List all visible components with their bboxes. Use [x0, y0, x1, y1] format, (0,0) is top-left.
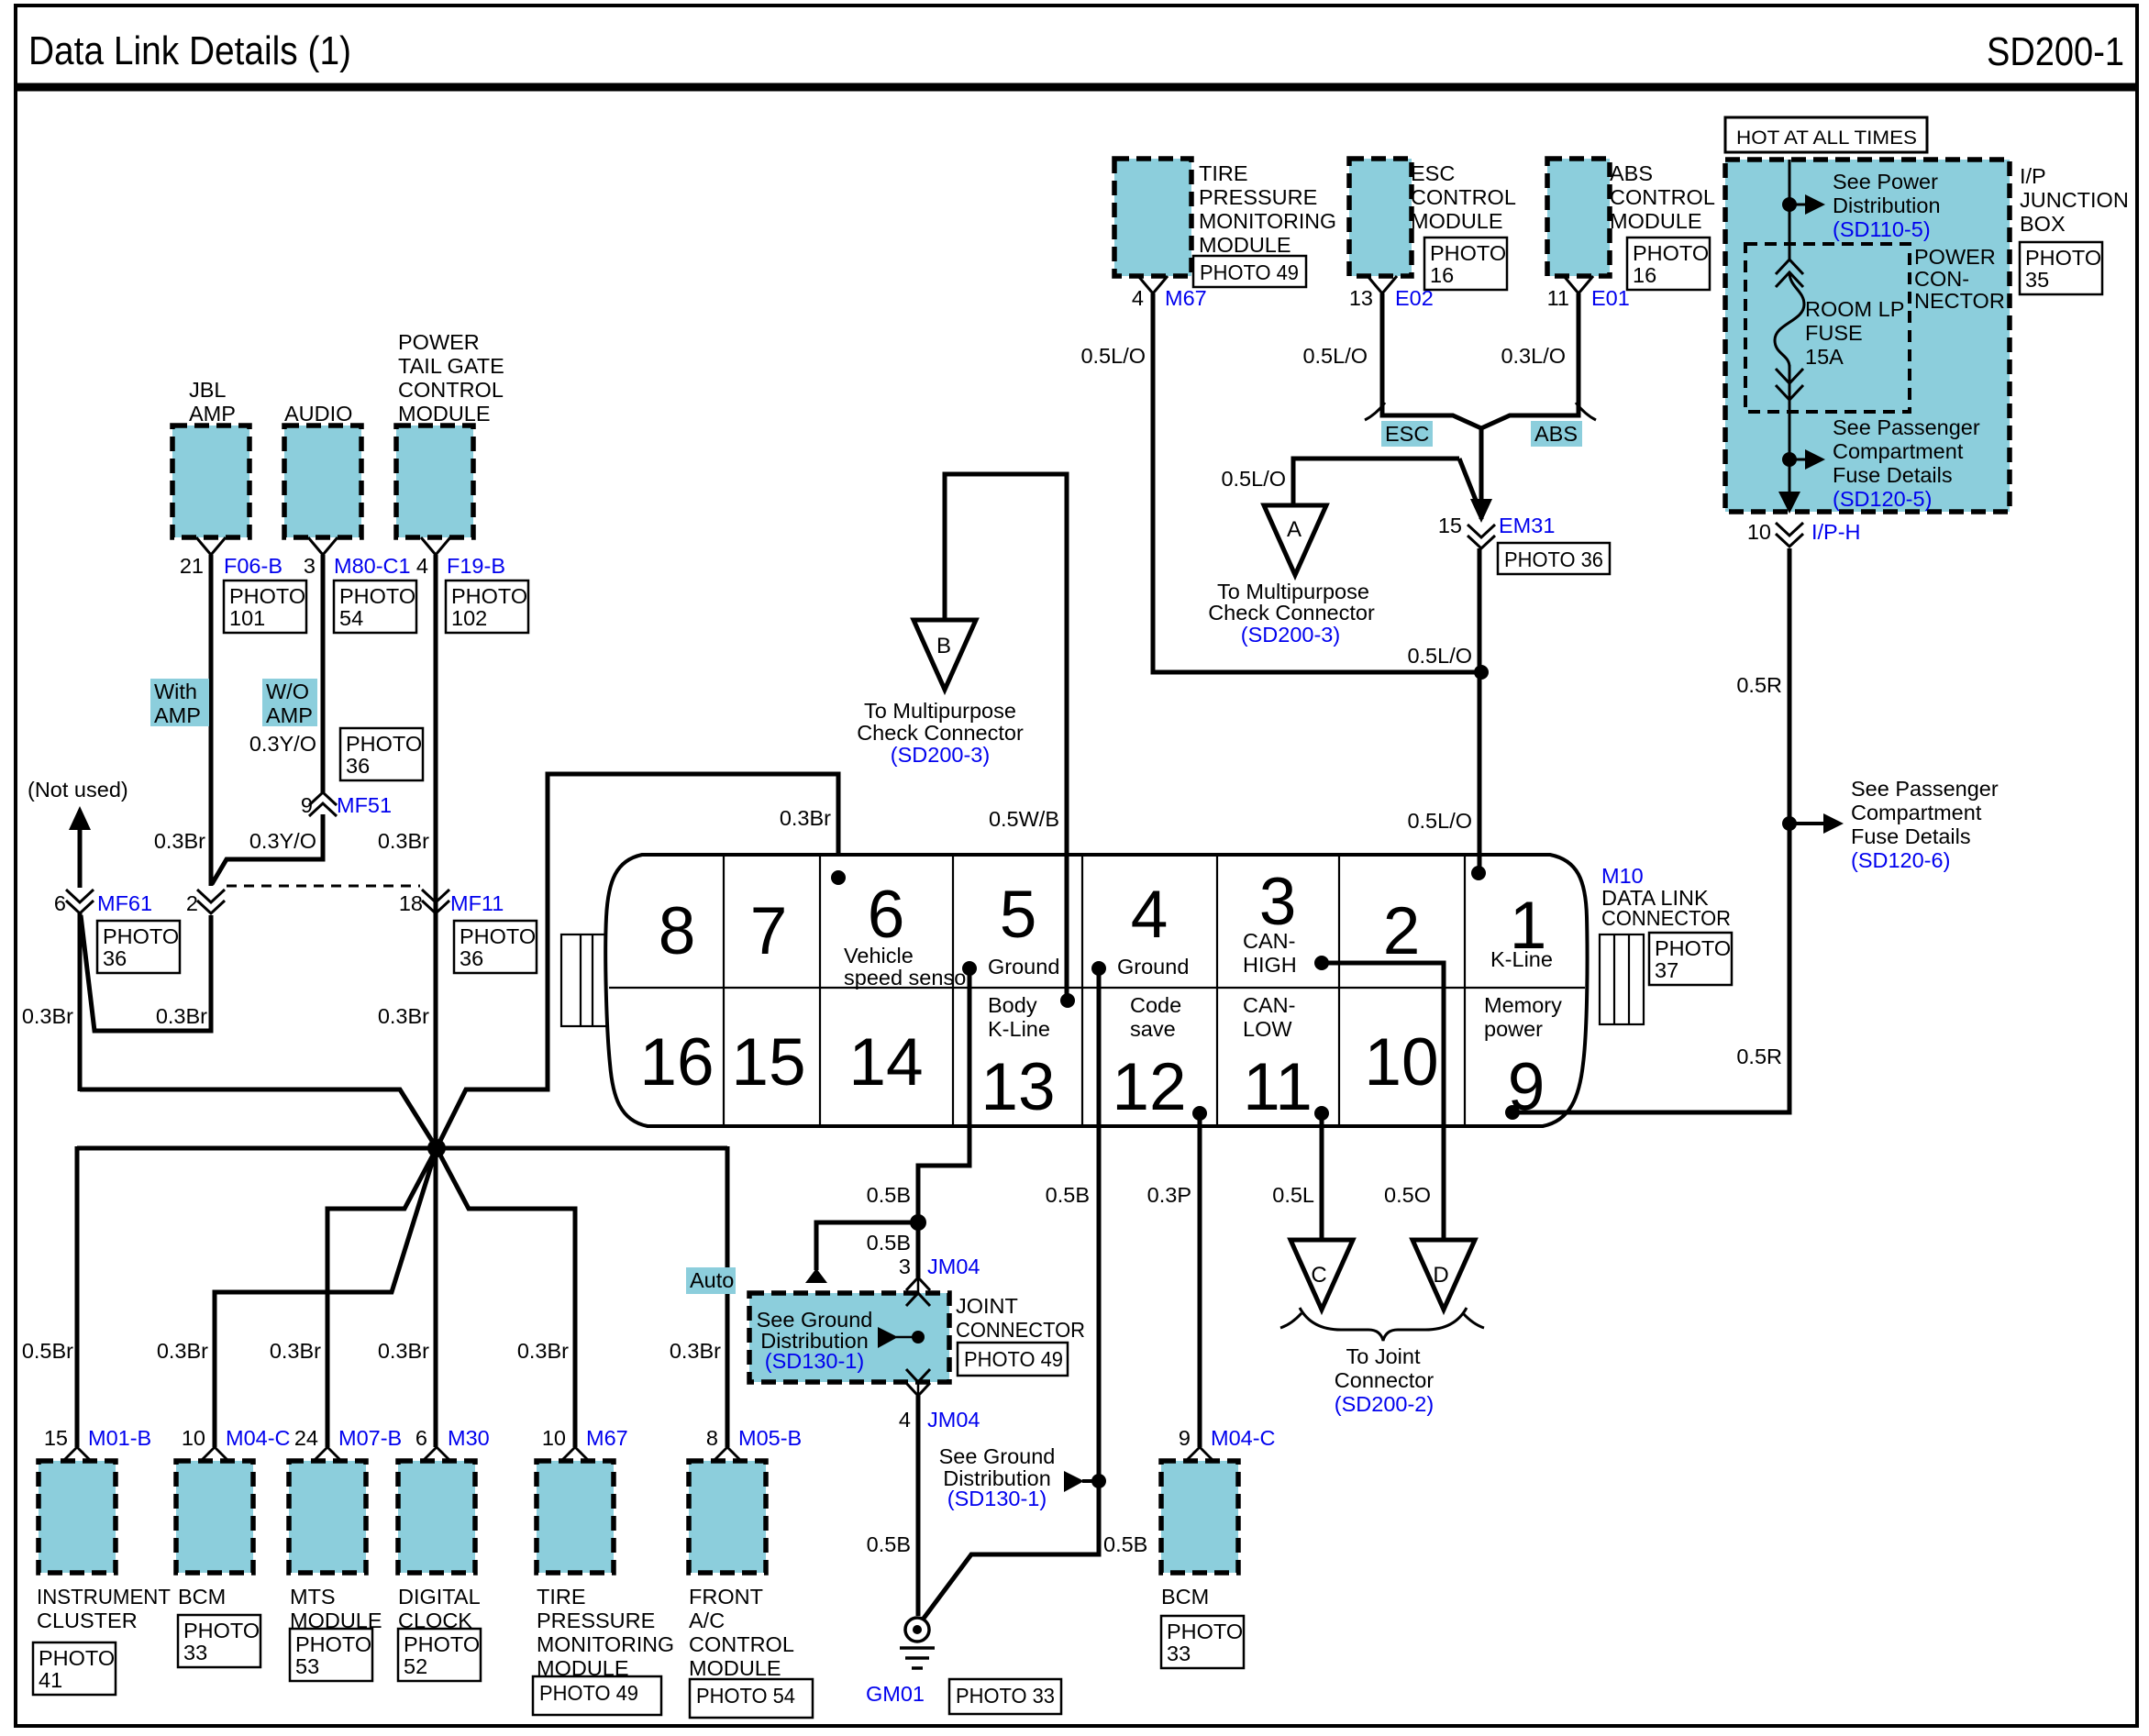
connector pin E01: [1564, 276, 1593, 293]
svg-text:36: 36: [346, 754, 370, 778]
svg-text:37: 37: [1655, 958, 1678, 982]
svg-text:(SD120-6): (SD120-6): [1851, 848, 1950, 872]
highlight Auto: [686, 1267, 736, 1294]
svg-text:JUNCTION: JUNCTION: [2020, 188, 2129, 212]
svg-text:15: 15: [44, 1426, 68, 1450]
arrow ground distribution (JM04): [878, 1327, 898, 1348]
svg-text:PHOTO 54: PHOTO 54: [696, 1684, 795, 1708]
svg-text:EM31: EM31: [1499, 514, 1555, 537]
svg-text:54: 54: [339, 606, 363, 630]
node pin9 memory power: [1505, 1105, 1520, 1120]
svg-text:(Not used): (Not used): [28, 778, 128, 802]
svg-text:33: 33: [1167, 1642, 1191, 1665]
svg-text:0.3L/O: 0.3L/O: [1501, 344, 1566, 368]
PHOTO 36 box (MF61): [97, 921, 180, 973]
PHOTO 33 box (BCM right): [1161, 1616, 1244, 1668]
svg-text:13: 13: [980, 1050, 1055, 1124]
svg-text:See Passenger: See Passenger: [1851, 777, 1999, 801]
svg-text:MODULE: MODULE: [689, 1656, 781, 1680]
connector M67 (TPMS): [562, 1447, 588, 1460]
svg-text:AMP: AMP: [154, 703, 201, 727]
connector MF61: [66, 890, 94, 913]
svg-text:(SD120-5): (SD120-5): [1833, 487, 1932, 511]
svg-text:See Power: See Power: [1833, 170, 1938, 194]
PHOTO 16 box (ESC): [1424, 238, 1507, 290]
JOINT CONNECTOR JM04: [749, 1293, 949, 1382]
svg-text:Check Connector: Check Connector: [857, 721, 1024, 745]
svg-text:0.5B: 0.5B: [867, 1231, 911, 1255]
wire MF61 straight down to corner: [78, 913, 83, 1091]
triangle C: [1291, 1240, 1353, 1310]
svg-text:Body: Body: [988, 993, 1037, 1017]
connector M01-B (instrument cluster): [64, 1447, 90, 1460]
svg-text:JOINT: JOINT: [956, 1294, 1018, 1318]
PHOTO 41 box: [33, 1642, 116, 1695]
svg-text:(SD200-3): (SD200-3): [891, 743, 990, 767]
triangle D: [1412, 1240, 1475, 1310]
svg-text:To Joint: To Joint: [1346, 1344, 1421, 1368]
svg-text:8: 8: [706, 1426, 718, 1450]
module TPMS (top): [1114, 159, 1191, 276]
ground GM01: [900, 1618, 935, 1668]
svg-text:101: 101: [229, 606, 265, 630]
svg-text:See Passenger: See Passenger: [1833, 415, 1980, 439]
svg-text:JM04: JM04: [927, 1408, 980, 1432]
svg-text:MODULE: MODULE: [398, 402, 491, 426]
wire branch to triangle A: [1293, 459, 1459, 505]
svg-text:MONITORING: MONITORING: [537, 1632, 674, 1656]
svg-text:PHOTO 33: PHOTO 33: [956, 1684, 1055, 1708]
svg-text:HOT AT ALL TIMES: HOT AT ALL TIMES: [1736, 127, 1917, 149]
svg-text:Check Connector: Check Connector: [1208, 601, 1375, 625]
PHOTO 54 box (front A/C): [690, 1679, 813, 1718]
svg-text:6: 6: [54, 891, 66, 915]
PHOTO 35 box: [2020, 242, 2102, 294]
svg-text:PHOTO: PHOTO: [460, 924, 536, 948]
svg-text:CON-: CON-: [1914, 267, 1969, 291]
svg-text:PHOTO 49: PHOTO 49: [964, 1347, 1063, 1371]
module JBL AMP: [172, 426, 249, 537]
svg-text:CONTROL: CONTROL: [689, 1632, 794, 1656]
svg-text:W/O: W/O: [266, 680, 309, 703]
svg-text:0.3Br: 0.3Br: [378, 1004, 429, 1028]
svg-text:BCM: BCM: [178, 1585, 226, 1609]
svg-text:9: 9: [301, 793, 313, 817]
svg-text:36: 36: [460, 946, 483, 970]
node pin4 ground: [1091, 961, 1106, 976]
svg-text:0.3Br: 0.3Br: [378, 829, 429, 853]
svg-text:0.3Br: 0.3Br: [156, 1004, 207, 1028]
arrow see passenger compartment fuse details (SD120-6): [1795, 822, 1823, 825]
svg-text:4: 4: [1131, 878, 1169, 952]
wire AUDIO down to MF51: [321, 555, 326, 792]
svg-text:11: 11: [1243, 1050, 1313, 1124]
svg-text:PHOTO: PHOTO: [39, 1646, 115, 1670]
svg-text:CONNECTOR: CONNECTOR: [1601, 906, 1731, 930]
svg-text:power: power: [1484, 1017, 1543, 1041]
svg-text:SD200-1: SD200-1: [1987, 29, 2124, 74]
svg-text:0.5B: 0.5B: [1046, 1183, 1090, 1207]
svg-text:PHOTO: PHOTO: [1430, 241, 1506, 265]
brace under C and D: [1280, 1313, 1302, 1328]
svg-text:LOW: LOW: [1243, 1017, 1292, 1041]
svg-text:Code: Code: [1130, 993, 1181, 1017]
module INSTRUMENT CLUSTER: [39, 1461, 116, 1573]
connector 2: [197, 890, 225, 913]
svg-text:2: 2: [186, 891, 198, 915]
node see power distribution tap: [1782, 197, 1797, 212]
svg-text:CONTROL: CONTROL: [398, 378, 504, 402]
connector chevron inside JM04 bottom: [906, 1369, 930, 1382]
DLC left tab: [561, 934, 612, 1026]
svg-text:CONTROL: CONTROL: [1610, 185, 1715, 209]
wire pin4 ground 0.5B elbow to GM01: [923, 970, 1099, 1620]
svg-text:53: 53: [295, 1654, 319, 1678]
connector pin JBL AMP: [196, 537, 226, 555]
svg-text:10: 10: [542, 1426, 566, 1450]
svg-text:PHOTO: PHOTO: [295, 1632, 371, 1656]
connector pin AUDIO: [308, 537, 338, 555]
wire E02 merge: [1382, 293, 1481, 428]
svg-text:M05-B: M05-B: [738, 1426, 802, 1450]
connector JM04 pin 3: [906, 1277, 930, 1290]
svg-text:save: save: [1130, 1017, 1176, 1041]
svg-text:0.5Br: 0.5Br: [22, 1339, 73, 1363]
svg-text:15: 15: [1438, 514, 1462, 537]
svg-text:0.5B: 0.5B: [1103, 1532, 1147, 1556]
svg-text:TAIL GATE: TAIL GATE: [398, 354, 504, 378]
node pin11 CAN-LOW: [1314, 1106, 1329, 1121]
connector M04-C (BCM right): [1187, 1447, 1213, 1460]
svg-text:3: 3: [304, 554, 316, 578]
svg-text:MF11: MF11: [450, 891, 504, 915]
svg-text:Fuse Details: Fuse Details: [1851, 824, 1971, 848]
wire thin inside JM04: [917, 1277, 920, 1396]
module DIGITAL CLOCK: [398, 1461, 475, 1573]
wire JM04 to GM01: [916, 1396, 921, 1616]
node see passenger compartment tap: [1782, 452, 1797, 467]
svg-text:INSTRUMENT: INSTRUMENT: [37, 1585, 171, 1609]
svg-text:PHOTO: PHOTO: [1633, 241, 1709, 265]
svg-text:0.3Br: 0.3Br: [670, 1339, 721, 1363]
svg-text:10: 10: [182, 1426, 205, 1450]
svg-text:M07-B: M07-B: [338, 1426, 402, 1450]
svg-text:0.3Br: 0.3Br: [22, 1004, 73, 1028]
svg-text:D: D: [1433, 1263, 1448, 1288]
svg-text:E01: E01: [1591, 286, 1630, 310]
node 0.5B tap: [1091, 1474, 1106, 1488]
connector chevron inside JM04 top: [906, 1293, 930, 1306]
triangle A: [1264, 505, 1326, 575]
svg-text:9: 9: [1179, 1426, 1191, 1450]
svg-text:3: 3: [899, 1255, 911, 1278]
svg-text:PHOTO: PHOTO: [1167, 1620, 1243, 1643]
connector M04-C (BCM): [202, 1447, 227, 1460]
svg-text:C: C: [1311, 1263, 1326, 1288]
wire instrument cluster branch: [75, 1146, 80, 1447]
svg-text:PHOTO: PHOTO: [451, 584, 527, 608]
wire pin12 code save 0.3P to BCM right: [1198, 1113, 1202, 1447]
svg-text:12: 12: [1112, 1050, 1186, 1124]
node JM04 internal: [912, 1331, 925, 1343]
svg-text:0.3Br: 0.3Br: [517, 1339, 569, 1363]
svg-text:A/C: A/C: [689, 1609, 725, 1632]
PHOTO 36 box (MF11): [454, 921, 537, 973]
svg-text:36: 36: [103, 946, 127, 970]
svg-text:TIRE: TIRE: [537, 1585, 586, 1609]
svg-text:MF61: MF61: [97, 891, 152, 915]
connector I/P-H: [1776, 523, 1803, 547]
svg-text:15: 15: [731, 1025, 805, 1100]
PHOTO 49 box (TPMS bottom): [533, 1676, 661, 1715]
svg-text:CAN-: CAN-: [1243, 929, 1295, 953]
arrowhead at I/P box bottom: [1778, 492, 1800, 514]
module POWER TAIL GATE CONTROL MODULE: [396, 426, 473, 537]
wire inside I/P box: [1789, 160, 1791, 260]
svg-text:24: 24: [294, 1426, 318, 1450]
arrow see power distribution: [1795, 204, 1805, 206]
svg-text:A: A: [1287, 517, 1302, 542]
svg-text:MF51: MF51: [337, 793, 392, 817]
PHOTO 102 box: [446, 581, 528, 633]
wire X junction NE ray up to DLC pin 6: [437, 774, 838, 1148]
svg-text:Auto: Auto: [690, 1268, 734, 1292]
svg-text:To Multipurpose: To Multipurpose: [864, 699, 1016, 723]
svg-text:Distribution: Distribution: [1833, 194, 1941, 217]
svg-text:Compartment: Compartment: [1851, 801, 1982, 824]
PHOTO 33 box (GM01): [949, 1679, 1061, 1714]
svg-text:0.3Y/O: 0.3Y/O: [249, 732, 316, 756]
svg-text:0.5L/O: 0.5L/O: [1302, 344, 1368, 368]
PHOTO 36 box (EM31): [1498, 543, 1610, 574]
svg-text:AMP: AMP: [189, 402, 236, 426]
svg-text:F19-B: F19-B: [447, 554, 505, 578]
node SD120-6 tap: [1782, 816, 1797, 831]
wire EM31 down to pin 1: [1478, 548, 1482, 875]
svg-text:Memory: Memory: [1484, 993, 1562, 1017]
connector MF51: [309, 792, 337, 816]
svg-text:PHOTO: PHOTO: [404, 1632, 480, 1656]
wire horizontal through X junction: [77, 1146, 727, 1151]
svg-text:ABS: ABS: [1610, 161, 1653, 185]
svg-text:M04-C: M04-C: [1211, 1426, 1276, 1450]
svg-text:FUSE: FUSE: [1805, 321, 1863, 345]
svg-text:0.5L/O: 0.5L/O: [1080, 344, 1146, 368]
svg-text:PHOTO 49: PHOTO 49: [539, 1681, 638, 1705]
svg-text:0.3P: 0.3P: [1147, 1183, 1191, 1207]
wire MF61 slant + U bottom to connector 2: [81, 915, 211, 1031]
svg-text:41: 41: [39, 1668, 62, 1692]
svg-text:M30: M30: [448, 1426, 490, 1450]
svg-text:0.5O: 0.5O: [1384, 1183, 1431, 1207]
svg-text:M01-B: M01-B: [88, 1426, 151, 1450]
wire merged 0.5L/O down to EM31: [1479, 426, 1484, 519]
svg-text:JBL: JBL: [189, 378, 227, 402]
svg-text:0.3Br: 0.3Br: [378, 1339, 429, 1363]
svg-text:11: 11: [1547, 286, 1569, 310]
svg-text:I/P-H: I/P-H: [1811, 520, 1861, 544]
module AUDIO: [284, 426, 361, 537]
svg-text:14: 14: [848, 1025, 923, 1100]
svg-text:PHOTO: PHOTO: [346, 732, 422, 756]
svg-text:4: 4: [899, 1408, 911, 1432]
svg-text:JM04: JM04: [927, 1255, 980, 1278]
svg-text:8: 8: [659, 894, 696, 968]
svg-text:0.5L/O: 0.5L/O: [1407, 809, 1472, 833]
svg-text:16: 16: [639, 1025, 714, 1100]
module BCM (right): [1161, 1461, 1238, 1573]
PHOTO 37 box: [1649, 933, 1732, 985]
svg-text:DIGITAL: DIGITAL: [398, 1585, 481, 1609]
PHOTO 33 box (BCM left): [178, 1615, 260, 1667]
svg-text:F06-B: F06-B: [224, 554, 282, 578]
wire stub with up arrow: [816, 1222, 918, 1270]
svg-text:0.5L/O: 0.5L/O: [1221, 467, 1286, 491]
svg-text:0.3Br: 0.3Br: [270, 1339, 321, 1363]
PHOTO 53 box: [290, 1629, 372, 1681]
module MTS MODULE: [289, 1461, 366, 1573]
svg-text:0.5L/O: 0.5L/O: [1407, 644, 1472, 668]
node pin5 ground: [962, 961, 977, 976]
arrow up (Not used): [69, 806, 91, 830]
node 0.5B junction: [910, 1214, 926, 1231]
svg-text:2: 2: [1383, 894, 1421, 968]
svg-text:0.3Br: 0.3Br: [154, 829, 205, 853]
connector M30 (digital clock): [424, 1447, 449, 1460]
svg-text:TIRE: TIRE: [1199, 161, 1248, 185]
PHOTO 52 box: [398, 1629, 481, 1681]
svg-text:MODULE: MODULE: [1199, 233, 1291, 257]
svg-text:35: 35: [2025, 268, 2049, 292]
node pin1 top: [1471, 866, 1486, 880]
svg-text:K-Line: K-Line: [1490, 947, 1553, 971]
PHOTO 54 box: [334, 581, 416, 633]
svg-text:16: 16: [1430, 263, 1454, 287]
svg-text:PHOTO 36: PHOTO 36: [1504, 547, 1603, 571]
svg-text:BCM: BCM: [1161, 1585, 1209, 1609]
svg-text:PHOTO: PHOTO: [339, 584, 415, 608]
highlight With AMP: [150, 679, 209, 727]
svg-text:See Ground: See Ground: [939, 1444, 1056, 1468]
highlight ESC: [1381, 421, 1433, 447]
arrow see passenger compartment fuse details: [1795, 459, 1805, 461]
connector M07-B (MTS module): [315, 1447, 340, 1460]
box HOT AT ALL TIMES: [1725, 117, 1927, 152]
svg-text:4: 4: [416, 554, 428, 578]
arrow ground distribution (right): [1064, 1471, 1084, 1492]
wire MF51 down with elbow to connector 2: [212, 814, 323, 884]
svg-text:Data Link Details (1): Data Link Details (1): [28, 28, 351, 73]
svg-text:PRESSURE: PRESSURE: [537, 1609, 655, 1632]
svg-text:M80-C1: M80-C1: [334, 554, 411, 578]
svg-text:AUDIO: AUDIO: [284, 402, 352, 426]
svg-text:Ground: Ground: [988, 955, 1059, 979]
svg-text:13: 13: [1349, 286, 1373, 310]
node M67 joins EM31 wire: [1474, 665, 1489, 680]
svg-text:PRESSURE: PRESSURE: [1199, 185, 1317, 209]
module ESC CONTROL MODULE: [1349, 159, 1412, 276]
fuse ROOM LP FUSE 15A: [1775, 260, 1804, 400]
svg-text:(SD110-5): (SD110-5): [1833, 217, 1931, 241]
svg-text:CONTROL: CONTROL: [1411, 185, 1516, 209]
wire X junction SW ray to MTS module: [327, 1148, 437, 1447]
wire B branch (0.5W/B) down to pin 13: [945, 474, 1067, 999]
wire MF61 corner to X junction (NW ray): [80, 1089, 437, 1148]
svg-text:HIGH: HIGH: [1243, 953, 1297, 977]
svg-text:3: 3: [1259, 865, 1297, 939]
svg-text:MODULE: MODULE: [1610, 209, 1702, 233]
svg-text:CLUSTER: CLUSTER: [37, 1609, 138, 1632]
svg-text:M67: M67: [1165, 286, 1207, 310]
svg-text:Vehicle: Vehicle: [844, 944, 914, 968]
svg-text:PHOTO: PHOTO: [229, 584, 305, 608]
svg-text:33: 33: [183, 1641, 207, 1664]
wire pin9 memory power 0.5R to I/P-H: [1512, 548, 1789, 1112]
svg-text:AMP: AMP: [266, 703, 313, 727]
svg-text:0.5R: 0.5R: [1736, 1045, 1782, 1068]
svg-text:102: 102: [451, 606, 487, 630]
power connector inner dashed box: [1745, 244, 1910, 412]
svg-text:Fuse Details: Fuse Details: [1833, 463, 1953, 487]
svg-text:10: 10: [1364, 1025, 1438, 1100]
DLC cell dividers: [723, 855, 725, 1126]
svg-text:0.3Br: 0.3Br: [157, 1339, 208, 1363]
node pin13 body K-line: [1060, 993, 1075, 1008]
svg-text:NECTOR: NECTOR: [1914, 289, 2005, 313]
svg-text:POWER: POWER: [398, 330, 480, 354]
arrowhead into EM31: [1470, 499, 1492, 523]
wire front A/C branch: [726, 1146, 730, 1447]
svg-text:MONITORING: MONITORING: [1199, 209, 1336, 233]
svg-text:B: B: [936, 634, 951, 658]
svg-text:(SD200-2): (SD200-2): [1335, 1392, 1434, 1416]
svg-text:MTS: MTS: [290, 1585, 336, 1609]
svg-text:M67: M67: [586, 1426, 628, 1450]
svg-text:16: 16: [1633, 263, 1656, 287]
svg-text:PHOTO: PHOTO: [2025, 246, 2101, 270]
svg-text:M04-C: M04-C: [226, 1426, 291, 1450]
svg-text:PHOTO: PHOTO: [1655, 936, 1731, 960]
svg-text:ROOM LP: ROOM LP: [1805, 297, 1904, 321]
triangle B: [914, 620, 976, 690]
svg-text:18: 18: [399, 891, 423, 915]
svg-text:21: 21: [180, 554, 204, 578]
svg-text:0.5B: 0.5B: [867, 1183, 911, 1207]
module TIRE PRESSURE MONITORING MODULE (bottom): [537, 1461, 614, 1573]
node pin12 code save: [1192, 1106, 1207, 1121]
svg-text:PHOTO: PHOTO: [183, 1619, 260, 1642]
connector M05-B (front A/C): [714, 1447, 740, 1460]
svg-text:6: 6: [868, 878, 905, 952]
svg-text:0.5B: 0.5B: [867, 1532, 911, 1556]
connector pin E02: [1368, 276, 1397, 293]
module ABS CONTROL MODULE: [1547, 159, 1610, 276]
svg-text:FRONT: FRONT: [689, 1585, 763, 1609]
svg-text:10: 10: [1747, 520, 1771, 544]
svg-text:(SD130-1): (SD130-1): [947, 1487, 1047, 1510]
svg-text:GM01: GM01: [866, 1682, 925, 1706]
svg-text:0.3Y/O: 0.3Y/O: [249, 829, 316, 853]
wire pin11 CAN-LOW 0.5L to triangle C: [1320, 1113, 1324, 1238]
svg-text:PHOTO 49: PHOTO 49: [1200, 260, 1299, 284]
svg-text:6: 6: [415, 1426, 427, 1450]
connector pin PTG module: [421, 537, 450, 555]
svg-text:7: 7: [750, 894, 788, 968]
svg-text:ESC: ESC: [1385, 422, 1429, 446]
svg-text:K-Line: K-Line: [988, 1017, 1050, 1041]
connector pin M67: [1138, 276, 1168, 293]
svg-text:Connector: Connector: [1335, 1368, 1435, 1392]
